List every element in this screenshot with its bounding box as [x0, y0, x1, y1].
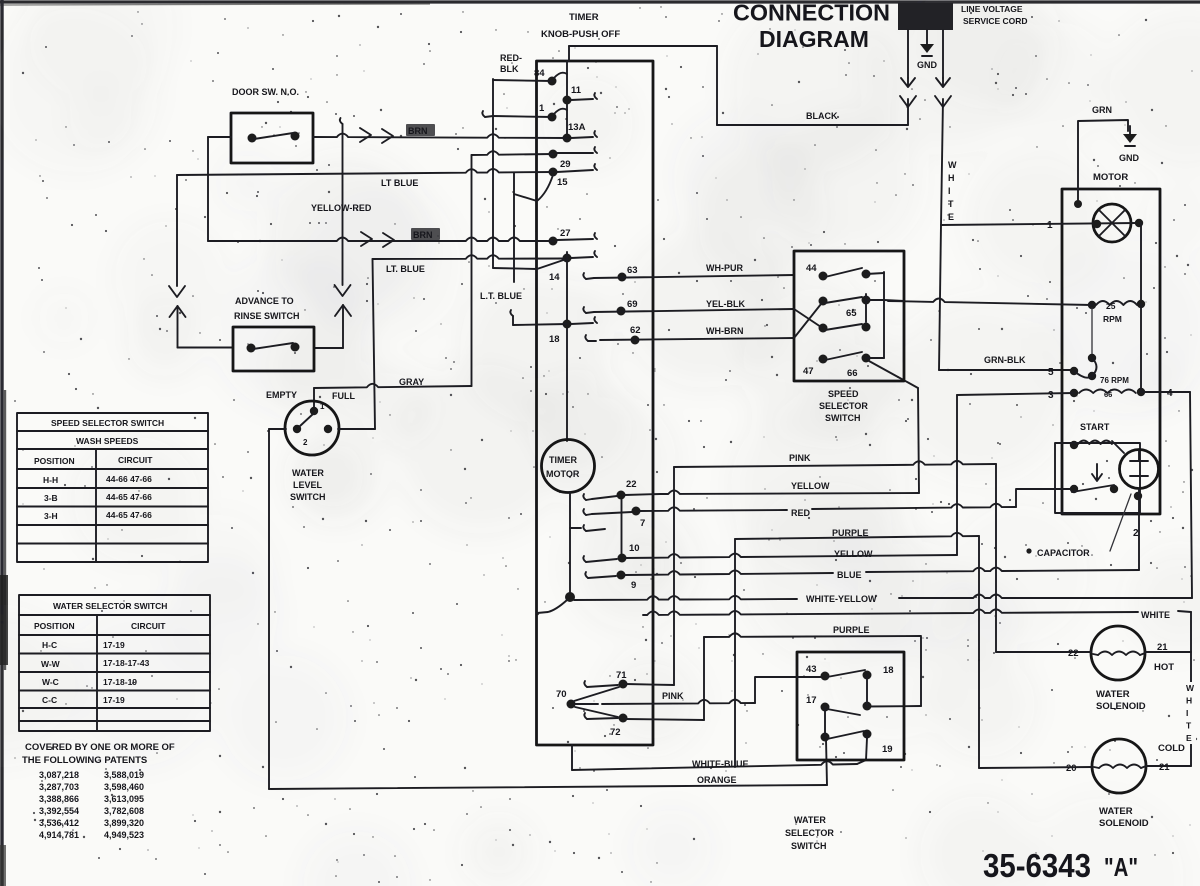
- wire hot 21 to junction: [1145, 651, 1191, 653]
- water level switch contacts: [310, 407, 318, 415]
- wire wh-brn cross: [794, 304, 821, 338]
- wire BRN upper: [313, 134, 567, 138]
- terminal 29: [549, 150, 558, 159]
- blade 43-18: [827, 670, 865, 677]
- blade 70-71: [574, 687, 619, 701]
- svg-text:EMPTY: EMPTY: [266, 390, 297, 400]
- leader line capacitor: [1110, 494, 1131, 551]
- svg-text:KNOB-PUSH OFF: KNOB-PUSH OFF: [541, 29, 620, 40]
- wire WHITE-YELLOW: [574, 596, 797, 600]
- terminal 7 row: [583, 509, 586, 515]
- svg-text:17-18-19: 17-18-19: [103, 677, 137, 687]
- wire water level left: [269, 428, 286, 430]
- start switch coil: [1070, 441, 1078, 449]
- wire lt blue drop: [513, 173, 515, 282]
- wire water level right: [338, 428, 375, 430]
- svg-text:RINSE SWITCH: RINSE SWITCH: [234, 311, 300, 321]
- ground lead and symbol GND: [926, 30, 928, 44]
- svg-text:BRN: BRN: [408, 126, 428, 136]
- svg-text:3-B: 3-B: [44, 493, 58, 503]
- svg-text:43: 43: [806, 664, 817, 675]
- wire speed selector 65 to motor winding: [888, 298, 1092, 305]
- wire purple riser left: [734, 539, 736, 767]
- wire door sw left down: [207, 137, 209, 241]
- svg-text:DIAGRAM: DIAGRAM: [759, 26, 869, 52]
- wire 65 bar: [865, 294, 867, 322]
- wire 66 diagonal: [898, 377, 918, 388]
- svg-text:BLACK: BLACK: [806, 111, 838, 121]
- svg-text:TIMER: TIMER: [569, 12, 599, 23]
- svg-text:H: H: [1186, 696, 1192, 706]
- svg-text:65: 65: [846, 308, 857, 319]
- svg-text:W: W: [1186, 683, 1195, 693]
- svg-text:CIRCUIT: CIRCUIT: [131, 621, 166, 631]
- svg-text:MOTOR: MOTOR: [546, 469, 580, 479]
- svg-text:PINK: PINK: [662, 691, 684, 701]
- svg-text:35-6343: 35-6343: [983, 847, 1091, 884]
- wire 29 to gray riser: [471, 155, 473, 386]
- svg-text:I: I: [1186, 708, 1188, 718]
- svg-text:WATER: WATER: [292, 468, 324, 478]
- blade 70-72: [575, 707, 618, 717]
- wire door switch left: [208, 136, 231, 138]
- svg-text:4: 4: [1167, 388, 1173, 399]
- wire gray to full contact: [313, 388, 315, 408]
- wire RED: [640, 507, 787, 511]
- wire orange riser to 17: [826, 739, 827, 785]
- svg-text:LEVEL: LEVEL: [293, 480, 323, 490]
- wire motor 4 down right edge: [1190, 392, 1192, 598]
- svg-text:SERVICE CORD: SERVICE CORD: [963, 16, 1028, 26]
- wire YELLOW upper: [660, 490, 919, 494]
- svg-text:11: 11: [571, 85, 582, 96]
- svg-text:CONNECTION: CONNECTION: [733, 0, 890, 26]
- svg-text:LT. BLUE: LT. BLUE: [386, 264, 425, 274]
- blade 17: [827, 709, 860, 715]
- svg-text:GRN: GRN: [1092, 105, 1112, 115]
- svg-text:C-C: C-C: [42, 695, 57, 705]
- wire BRN lower to 27: [208, 238, 553, 242]
- wire timer feed stub: [568, 46, 570, 61]
- motor start winding row / terminal 3: [1070, 389, 1078, 397]
- svg-text:WATER SELECTOR SWITCH: WATER SELECTOR SWITCH: [53, 601, 167, 611]
- svg-text:H-C: H-C: [42, 640, 57, 650]
- blade 47-66: [825, 352, 862, 360]
- svg-text:1: 1: [539, 103, 545, 114]
- svg-text:71: 71: [616, 670, 627, 681]
- wire lt blue riser: [373, 259, 376, 429]
- svg-text:SOLENOID: SOLENOID: [1096, 701, 1146, 712]
- stub RED-BLK: [482, 111, 485, 117]
- svg-text:3,782,608: 3,782,608: [104, 806, 144, 816]
- water selector left contacts: [821, 672, 830, 681]
- scan border left edge: [0, 0, 3, 886]
- wire to 14 blade: [493, 268, 537, 269]
- wire advance switch left riser: [176, 175, 178, 286]
- wire ORANGE: [269, 785, 827, 789]
- capacitor plates: [1130, 451, 1148, 476]
- wire white to motor terminal 1: [941, 223, 1137, 225]
- wire YELLOW-RED riser: [340, 118, 343, 124]
- timer motor circle: [542, 440, 595, 493]
- motor outline box: [1062, 189, 1160, 514]
- svg-text:THE FOLLOWING PATENTS: THE FOLLOWING PATENTS: [22, 755, 147, 766]
- svg-text:22: 22: [1068, 648, 1079, 659]
- svg-text:69: 69: [627, 299, 638, 310]
- cam bar 22: [621, 494, 623, 559]
- terminal 1: [548, 113, 557, 122]
- stub 65 right: [866, 299, 884, 301]
- svg-text:COLD: COLD: [1158, 743, 1185, 754]
- svg-text:CAPACITOR: CAPACITOR: [1037, 548, 1090, 558]
- svg-text:POSITION: POSITION: [34, 621, 75, 631]
- terminal 62: [585, 335, 588, 341]
- svg-text:DOOR SW. N.O.: DOOR SW. N.O.: [232, 87, 299, 97]
- svg-text:T: T: [948, 199, 954, 209]
- svg-text:3,287,703: 3,287,703: [39, 782, 79, 792]
- svg-text:47: 47: [803, 366, 814, 377]
- svg-text:10: 10: [629, 543, 640, 554]
- svg-text:H: H: [948, 173, 955, 183]
- label BRN upper: [406, 124, 435, 136]
- svg-text:BLUE: BLUE: [837, 570, 862, 580]
- svg-text:WATER: WATER: [1096, 689, 1130, 700]
- svg-text:W-W: W-W: [41, 659, 61, 669]
- svg-text:2: 2: [303, 438, 308, 447]
- terminal 69: [583, 307, 586, 313]
- svg-text:17-18-17-43: 17-18-17-43: [103, 658, 150, 668]
- blade 19: [827, 731, 864, 739]
- svg-text:SELECTOR: SELECTOR: [785, 828, 834, 838]
- wire BLACK service to timer: [717, 124, 908, 126]
- svg-text:RED: RED: [791, 508, 811, 518]
- svg-text:RED-: RED-: [500, 53, 522, 63]
- wire to 20 cold valve: [979, 767, 1092, 768]
- wire pink down to hot valve: [995, 464, 997, 652]
- junction 14: [563, 254, 572, 263]
- cold water solenoid: [1092, 739, 1146, 793]
- stub 66 right: [866, 357, 884, 359]
- hot water solenoid: [1091, 626, 1145, 680]
- svg-text:E: E: [948, 212, 954, 222]
- wire rotor to main winding: [1140, 223, 1142, 304]
- svg-text:SPEED SELECTOR SWITCH: SPEED SELECTOR SWITCH: [51, 418, 164, 428]
- svg-text:44: 44: [806, 263, 817, 274]
- svg-text:5: 5: [1048, 367, 1054, 378]
- svg-text:21: 21: [1159, 762, 1170, 773]
- door switch contacts: [248, 134, 257, 143]
- svg-text:FULL: FULL: [332, 391, 355, 401]
- svg-text:T: T: [1186, 721, 1192, 731]
- wire capacitor terminal 2: [1138, 489, 1140, 570]
- svg-text:25: 25: [1106, 301, 1116, 311]
- svg-text:WH-PUR: WH-PUR: [706, 263, 743, 273]
- node capacitor bottom: [1134, 492, 1142, 500]
- svg-text:YEL-BLK: YEL-BLK: [706, 299, 745, 309]
- svg-text:L.T. BLUE: L.T. BLUE: [480, 291, 522, 301]
- wire pink riser to 71: [673, 467, 675, 685]
- water selector right contacts: [863, 671, 872, 680]
- svg-text:MOTOR: MOTOR: [1093, 172, 1128, 183]
- wire RED-BLK bus: [492, 79, 494, 268]
- svg-text:44-66 47-66: 44-66 47-66: [106, 474, 152, 484]
- svg-text:HOT: HOT: [1154, 662, 1174, 673]
- start switch box: [1055, 443, 1140, 513]
- water level switch circle: [285, 401, 339, 455]
- wire PURPLE lower: [704, 633, 921, 637]
- wire to terminal 29: [472, 151, 554, 155]
- wire lt blue to 18: [513, 324, 567, 325]
- wire GRN-BLK to motor 5: [939, 369, 1074, 371]
- svg-text:22: 22: [626, 479, 637, 490]
- svg-text:RPM: RPM: [1103, 314, 1122, 324]
- terminal 11: [563, 96, 572, 105]
- stub 44 right: [866, 273, 884, 274]
- start switch contacts: [1070, 485, 1078, 493]
- svg-text:WATER: WATER: [794, 815, 826, 825]
- svg-text:9: 9: [631, 580, 636, 591]
- wire YEL-BLK 69 to speed selector: [594, 309, 794, 312]
- wire YELLOW lower: [626, 554, 957, 558]
- wire PINK lower: [602, 700, 755, 704]
- svg-text:YELLOW: YELLOW: [834, 549, 873, 559]
- wire GRAY: [314, 384, 472, 388]
- svg-text:1: 1: [1047, 220, 1053, 231]
- svg-text:LT BLUE: LT BLUE: [381, 178, 418, 188]
- wire yellow from 22: [625, 494, 660, 495]
- door switch box: [231, 113, 313, 163]
- wire 66 to corner: [869, 361, 898, 377]
- terminal 15: [549, 168, 558, 177]
- svg-text:SWITCH: SWITCH: [825, 413, 861, 423]
- svg-text:TIMER: TIMER: [549, 455, 577, 465]
- wire WH-PUR 63 to speed selector 44: [594, 275, 794, 278]
- wire 15 outside loop: [514, 175, 553, 201]
- label BRN lower: [411, 228, 440, 240]
- wire yellow riser to motor 3: [956, 395, 958, 555]
- wire selector inner bus: [883, 272, 885, 358]
- label CAPACITOR: [1026, 548, 1031, 553]
- start switch blade: [1072, 485, 1114, 492]
- wire service cord white lead: [942, 30, 944, 78]
- svg-text:2: 2: [1133, 528, 1139, 539]
- speed selector switch box: [794, 251, 904, 381]
- wire yel-blk cross: [794, 309, 821, 327]
- blade 84: [554, 73, 567, 78]
- svg-text:62: 62: [630, 325, 641, 336]
- svg-text:ORANGE: ORANGE: [697, 775, 737, 785]
- motor main winding 25 RPM: [1088, 301, 1096, 309]
- svg-text:WHITE: WHITE: [1141, 610, 1170, 620]
- node motor rotor right: [1135, 219, 1143, 227]
- svg-text:SOLENOID: SOLENOID: [1099, 818, 1149, 829]
- svg-text:H-H: H-H: [43, 475, 58, 485]
- wire timer inner bus top: [566, 61, 568, 140]
- svg-text:20: 20: [1066, 763, 1077, 774]
- junction 18: [563, 320, 572, 329]
- svg-text:SELECTOR: SELECTOR: [819, 401, 868, 411]
- svg-text:E: E: [1186, 733, 1192, 743]
- wire pink to selector 43: [755, 677, 797, 703]
- wire WHITE-BLUE: [571, 745, 573, 770]
- svg-text:72: 72: [610, 727, 621, 738]
- speed selector right contacts: [862, 270, 871, 279]
- blade 65b: [825, 324, 862, 330]
- label WHITE vertical right: [1185, 682, 1196, 744]
- terminal 13A: [563, 134, 572, 143]
- water selector switch box: [797, 652, 904, 760]
- svg-text:3,613,095: 3,613,095: [104, 794, 144, 804]
- advance switch contacts: [247, 344, 256, 353]
- terminal 84: [548, 77, 557, 86]
- svg-text:BRN: BRN: [413, 230, 433, 240]
- wire motor terminal 4 out: [1141, 391, 1190, 393]
- node motor rotor left: [1093, 220, 1101, 228]
- wire timer top riser: [716, 46, 718, 125]
- wire to motor 3: [957, 393, 1074, 395]
- svg-text:3,392,554: 3,392,554: [39, 806, 79, 816]
- svg-text:4,949,523: 4,949,523: [104, 830, 144, 840]
- svg-text:66: 66: [1104, 390, 1112, 399]
- blade 14: [537, 260, 565, 270]
- svg-text:27: 27: [560, 228, 571, 239]
- terminal 9 row: [585, 572, 588, 578]
- wire PURPLE upper: [735, 533, 979, 539]
- svg-text:W-C: W-C: [42, 677, 59, 687]
- terminal 10 row: [583, 525, 586, 531]
- terminal row to yellow: [583, 556, 586, 562]
- wire purple to selector 18: [920, 637, 922, 706]
- wire red jog to start switch: [1016, 489, 1070, 507]
- svg-text:3,536,412: 3,536,412: [39, 818, 79, 828]
- blade 65a: [825, 297, 862, 303]
- water selector switch table: [19, 595, 210, 731]
- advance to rinse switch box: [233, 327, 314, 371]
- wire winding common right: [1140, 304, 1142, 392]
- svg-text:WASH SPEEDS: WASH SPEEDS: [76, 436, 139, 446]
- motor rotor circle: [1093, 204, 1131, 242]
- svg-text:I: I: [948, 186, 951, 196]
- wire purple riser to 72: [703, 637, 705, 720]
- svg-text:3,598,460: 3,598,460: [104, 782, 144, 792]
- wire 18 link: [866, 675, 868, 706]
- wire 19 stub: [866, 734, 868, 738]
- svg-text:3-H: 3-H: [44, 511, 58, 521]
- connector pair black lead: [900, 96, 916, 107]
- blade 1: [554, 109, 567, 114]
- svg-text:LINE VOLTAGE: LINE VOLTAGE: [961, 4, 1023, 14]
- speed selector left contacts: [819, 272, 828, 281]
- wire 71 out: [626, 684, 674, 685]
- svg-text:18: 18: [883, 665, 894, 676]
- motor low speed winding: [1088, 354, 1096, 362]
- line voltage service cord block: [898, 3, 953, 30]
- svg-text:3: 3: [1048, 390, 1054, 401]
- svg-text:PINK: PINK: [789, 453, 811, 463]
- scan border top edge: [0, 0, 1200, 3]
- svg-text:15: 15: [557, 177, 568, 188]
- svg-text:84: 84: [534, 68, 545, 79]
- svg-text:GRN-BLK: GRN-BLK: [984, 355, 1026, 365]
- timer box: [537, 61, 654, 745]
- capacitor circle: [1120, 450, 1159, 489]
- wire to 22 hot valve: [996, 651, 1091, 653]
- svg-text:SWITCH: SWITCH: [791, 841, 827, 851]
- svg-text:3,388,866: 3,388,866: [39, 794, 79, 804]
- blade 44: [825, 268, 862, 277]
- wire winding tap: [1091, 308, 1093, 354]
- wire water level to orange loop: [268, 429, 270, 789]
- svg-text:13A: 13A: [568, 122, 586, 133]
- svg-text:70: 70: [556, 689, 567, 700]
- svg-text:7: 7: [640, 518, 645, 529]
- svg-text:W: W: [948, 160, 957, 170]
- terminal 27: [549, 237, 558, 246]
- svg-text:PURPLE: PURPLE: [833, 625, 870, 635]
- svg-text:3,899,320: 3,899,320: [104, 818, 144, 828]
- wire white-blue to 19: [857, 738, 867, 764]
- wire LT BLUE to 15: [177, 169, 553, 175]
- svg-text:76 RPM: 76 RPM: [1100, 376, 1129, 385]
- svg-text:WATER: WATER: [1099, 806, 1133, 817]
- svg-text:29: 29: [560, 159, 571, 170]
- wire white junction down to cold: [1190, 612, 1192, 766]
- wire PINK upper: [674, 461, 996, 467]
- wire BLUE: [625, 570, 833, 575]
- svg-text:44-65 47-66: 44-65 47-66: [106, 510, 152, 520]
- wire 66 to yellow riser: [918, 388, 919, 493]
- wire cold 21 to junction: [1146, 765, 1191, 767]
- speed selector switch table: [17, 413, 208, 562]
- wire common to left edge: [537, 600, 567, 613]
- wire timer motor to common: [569, 492, 571, 594]
- svg-text:14: 14: [549, 272, 560, 283]
- junction timer motor common: [565, 592, 575, 602]
- svg-text:63: 63: [627, 265, 638, 276]
- svg-text:GND: GND: [1119, 153, 1140, 163]
- wire WH-BRN 62 to speed selector: [600, 338, 794, 340]
- svg-text:WHITE-YELLOW: WHITE-YELLOW: [806, 594, 877, 604]
- wire 72 out: [626, 719, 704, 720]
- advance switch blade: [253, 343, 293, 349]
- ground symbol at motor: [1129, 126, 1131, 134]
- door switch blade: [254, 133, 293, 139]
- svg-text:COVERED BY ONE OR MORE OF: COVERED BY ONE OR MORE OF: [25, 742, 175, 753]
- svg-text:"A": "A": [1104, 852, 1138, 882]
- svg-text:CIRCUIT: CIRCUIT: [118, 455, 153, 465]
- svg-text:66: 66: [847, 368, 858, 379]
- motor terminal 5: [1070, 367, 1078, 375]
- svg-text:ADVANCE TO: ADVANCE TO: [235, 296, 294, 306]
- svg-text:17-19: 17-19: [103, 695, 125, 705]
- svg-text:SWITCH: SWITCH: [290, 492, 326, 502]
- svg-text:YELLOW: YELLOW: [791, 481, 830, 491]
- wire white lead down: [939, 225, 941, 370]
- svg-text:3,087,218: 3,087,218: [39, 770, 79, 780]
- svg-text:4,914,781: 4,914,781: [39, 830, 79, 840]
- wire WHITE to valves: [643, 609, 1138, 615]
- wire service cord black lead: [907, 30, 909, 78]
- svg-text:WH-BRN: WH-BRN: [706, 326, 744, 336]
- wire purple riser right: [978, 536, 980, 768]
- svg-text:17-19: 17-19: [103, 640, 125, 650]
- wire timer top feed: [569, 45, 717, 47]
- svg-text:19: 19: [882, 744, 893, 755]
- terminal 63: [583, 273, 586, 279]
- start switch actuator arrow: [1092, 464, 1102, 481]
- wire LT.BLUE to 14: [373, 255, 565, 259]
- svg-text:3,588,019: 3,588,019: [104, 770, 144, 780]
